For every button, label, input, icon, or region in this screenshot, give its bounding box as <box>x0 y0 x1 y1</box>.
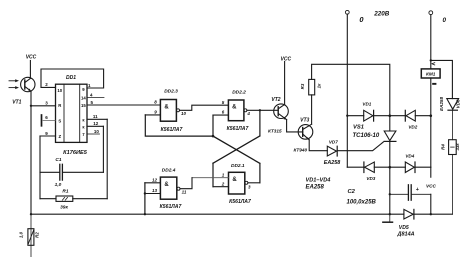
gate DD2.2 <box>213 89 278 131</box>
svg-text:DD2.3: DD2.3 <box>164 89 178 95</box>
svg-text:VCC: VCC <box>26 55 37 61</box>
wire DD2.4 inputs junction down to bus <box>144 183 146 214</box>
sensor plate at pin 6 <box>41 115 43 126</box>
wire branch to VD6 chain <box>431 60 453 98</box>
wire pin11 down to R1 <box>106 119 108 198</box>
wire mid node to VD2 <box>390 115 406 117</box>
svg-text:1,0: 1,0 <box>19 231 24 238</box>
svg-text:&: & <box>232 105 237 111</box>
svg-text:11: 11 <box>93 114 98 119</box>
DD1 pin 4 stub <box>87 96 104 98</box>
junction node left rail row1 <box>346 115 348 117</box>
wire VT2 emitter to VT3 base <box>287 120 303 132</box>
wire C2 right corner down to bus <box>430 194 432 214</box>
ground symbol <box>383 214 393 222</box>
svg-text:КТ315: КТ315 <box>268 128 282 133</box>
svg-text:100,0х25В: 100,0х25В <box>347 199 377 205</box>
wire VT1 emitter down <box>30 91 32 214</box>
diode VD4 <box>405 154 415 173</box>
svg-text:11: 11 <box>182 189 187 194</box>
svg-text:4: 4 <box>246 111 250 116</box>
svg-text:VD5: VD5 <box>399 225 409 231</box>
svg-text:DD1: DD1 <box>66 75 76 81</box>
svg-text:R2: R2 <box>35 232 40 238</box>
svg-text:К561ЛА7: К561ЛА7 <box>161 127 184 133</box>
terminal right <box>429 11 433 15</box>
diode VD6 <box>439 97 460 111</box>
transistor VT3 <box>293 117 312 152</box>
DD1 feedback loop wire pin2 to pin1 <box>41 69 104 88</box>
svg-text:12: 12 <box>93 121 99 126</box>
DD1 external pin numbers <box>45 82 99 136</box>
svg-text:VD6: VD6 <box>455 99 460 108</box>
svg-text:Z: Z <box>58 134 61 139</box>
svg-text:К561ЛА7: К561ЛА7 <box>229 199 252 205</box>
wire cross B down to DD2.1 input 2 <box>212 163 214 187</box>
wire VD3 to mid <box>374 166 390 168</box>
wire DD2.2 input6 up from cross node <box>212 115 214 136</box>
svg-text:R4: R4 <box>441 144 446 150</box>
svg-text:220В: 220В <box>373 11 390 18</box>
right mid rail KM1 down to bus <box>430 78 432 167</box>
svg-text:2: 2 <box>221 181 225 186</box>
cross wire B (DD2.2 output to DD2.1 input) <box>213 136 260 163</box>
bridge row1 wire left <box>347 115 363 117</box>
gate DD2.3 <box>145 89 228 137</box>
transistor VT2 <box>268 97 288 133</box>
IC DD1 body <box>56 84 88 142</box>
svg-text:1к: 1к <box>316 83 321 88</box>
svg-text:VD2: VD2 <box>408 125 417 130</box>
wire VD4 to right rail <box>415 166 431 168</box>
trimmer resistor R2 <box>19 229 40 246</box>
wire VD1 to mid node <box>374 115 390 117</box>
wire bus down to trimmer R2 <box>30 214 32 257</box>
svg-text:ТС106-10: ТС106-10 <box>353 133 380 139</box>
wire VT3 collector up to R3 <box>311 95 313 124</box>
svg-text:12: 12 <box>152 178 158 183</box>
junction node VT1 emitter / DD1 pin3 <box>30 105 32 107</box>
relay arrow mark <box>432 63 435 65</box>
wire VCC to VT1 collector <box>29 61 31 79</box>
svg-text:VCC: VCC <box>281 56 292 62</box>
svg-text:VCC: VCC <box>426 183 437 188</box>
DD1 pin 10 stub <box>87 133 100 135</box>
wire DD1 pin5 to DD2.3 input 8 <box>87 104 160 106</box>
junction node bus/VT1 <box>30 213 32 215</box>
resistor R4 <box>441 140 461 155</box>
junction node C2 corner on bus <box>430 213 432 215</box>
junction node cross left <box>212 135 215 138</box>
svg-text:R1: R1 <box>62 189 68 195</box>
wire pin12 down to C1 <box>102 126 104 172</box>
gate DD2.4 <box>145 168 192 210</box>
svg-text:DD2.4: DD2.4 <box>162 168 176 174</box>
junction node DD2.4 inputs <box>144 192 146 194</box>
mark below KM1 <box>432 83 436 85</box>
svg-text:&: & <box>164 182 169 188</box>
wire VT2 collector to VCC <box>284 62 286 105</box>
wire VD7 to VS1 gate <box>337 142 383 151</box>
wire VT3 emitter to VD7 <box>309 140 327 151</box>
svg-text:ЕА258: ЕА258 <box>306 185 325 191</box>
resistor R1 <box>40 189 107 211</box>
wire VD2 to right rail <box>415 115 431 117</box>
junction node ground <box>389 213 391 215</box>
DD1 pin 6 wire <box>43 119 56 121</box>
wire pin9 down to C1 and R1 <box>39 136 41 199</box>
bottom sensor bus wire <box>31 213 404 215</box>
junction node right rail row1 <box>430 114 433 117</box>
photo arrows into VT1 <box>9 79 19 89</box>
svg-text:К561ЛА7: К561ЛА7 <box>227 126 250 132</box>
diode VD3 <box>364 162 376 181</box>
wire to DD1 pin 3 <box>31 105 56 107</box>
svg-text:DD2.2: DD2.2 <box>232 89 246 95</box>
junction node thyristor anode <box>389 114 392 117</box>
VCC net stub below VD4 <box>430 167 432 177</box>
wire VD5 to right corner <box>414 213 453 215</box>
DD1 pin 12 wire <box>87 125 103 127</box>
resistor R3 <box>300 79 321 95</box>
mid rail down to bus <box>389 167 391 214</box>
svg-text:S: S <box>58 118 61 123</box>
svg-text:39к: 39к <box>60 205 68 211</box>
svg-text:0: 0 <box>442 17 446 24</box>
svg-text:К561ЛА7: К561ЛА7 <box>160 204 183 210</box>
svg-text:КМ1: КМ1 <box>426 72 436 77</box>
DD1 pin 11 wire <box>87 118 107 120</box>
DD1 inside pin labels <box>57 87 86 139</box>
svg-text:VD1: VD1 <box>362 102 371 107</box>
wire R4 down to bus corner <box>451 155 453 215</box>
capacitor C2 <box>390 185 431 200</box>
thyristor VS1 <box>353 116 396 168</box>
junction node bus/DD2.4 <box>144 213 146 215</box>
gate DD2.1 <box>192 163 260 205</box>
svg-text:10: 10 <box>181 111 187 116</box>
phototransistor VT1 <box>21 77 35 91</box>
junction node C2 tap <box>389 193 391 195</box>
diode VD7 <box>324 140 340 166</box>
right rail down to KM1 <box>430 15 432 69</box>
svg-text:КТ940: КТ940 <box>293 148 307 153</box>
diode VD1 <box>362 102 373 122</box>
diode VD2 <box>405 110 417 129</box>
bridge row2 wire left <box>347 166 364 168</box>
wire VD6 to R4 <box>451 110 453 140</box>
terminal left 220V <box>345 10 349 14</box>
svg-text:13: 13 <box>152 188 158 193</box>
DD1 pin 9 wire <box>40 135 56 137</box>
svg-text:DD2.1: DD2.1 <box>231 163 245 169</box>
svg-text:VD4: VD4 <box>405 154 414 159</box>
svg-text:&: & <box>164 104 169 110</box>
capacitor C1 <box>40 157 103 188</box>
svg-text:К176ИЕ5: К176ИЕ5 <box>63 150 88 156</box>
svg-text:VD3: VD3 <box>366 176 375 181</box>
svg-text:&: & <box>232 177 237 183</box>
svg-text:33к: 33к <box>455 143 460 151</box>
junction node right rail branch <box>430 59 432 61</box>
svg-text:1,0: 1,0 <box>55 182 62 188</box>
svg-text:+: + <box>416 187 419 193</box>
svg-text:14: 14 <box>81 96 86 101</box>
svg-text:VS1: VS1 <box>353 124 364 130</box>
wire mid to VD4 <box>390 166 406 168</box>
junction node thyristor cathode <box>389 166 392 169</box>
svg-text:VD7: VD7 <box>329 140 338 145</box>
svg-text:R3: R3 <box>300 83 305 89</box>
svg-text:С2: С2 <box>348 189 356 195</box>
relay coil KM1 <box>421 69 440 78</box>
left AC rail <box>346 14 348 167</box>
cross wire A (node to DD2.1 output) <box>213 136 260 163</box>
svg-text:VT2: VT2 <box>271 97 280 103</box>
wire cross A down to DD2.1 output <box>259 163 261 182</box>
svg-text:VT3: VT3 <box>300 117 309 123</box>
svg-text:ЕА258: ЕА258 <box>439 97 444 111</box>
svg-text:15: 15 <box>81 103 86 108</box>
wire R3 top to thyristor anode rail <box>312 64 390 115</box>
svg-text:ЕА258: ЕА258 <box>324 160 340 166</box>
svg-text:C1: C1 <box>55 157 61 163</box>
svg-text:VT1: VT1 <box>12 99 21 105</box>
svg-text:Д814А: Д814А <box>397 231 415 237</box>
junction node DD2.2 output <box>259 109 261 111</box>
wire DD2.2 output down <box>259 110 261 136</box>
svg-text:10: 10 <box>57 88 62 93</box>
zener diode VD5 <box>397 209 415 237</box>
svg-text:VD1–VD4: VD1–VD4 <box>306 178 332 184</box>
svg-text:10: 10 <box>94 129 100 134</box>
